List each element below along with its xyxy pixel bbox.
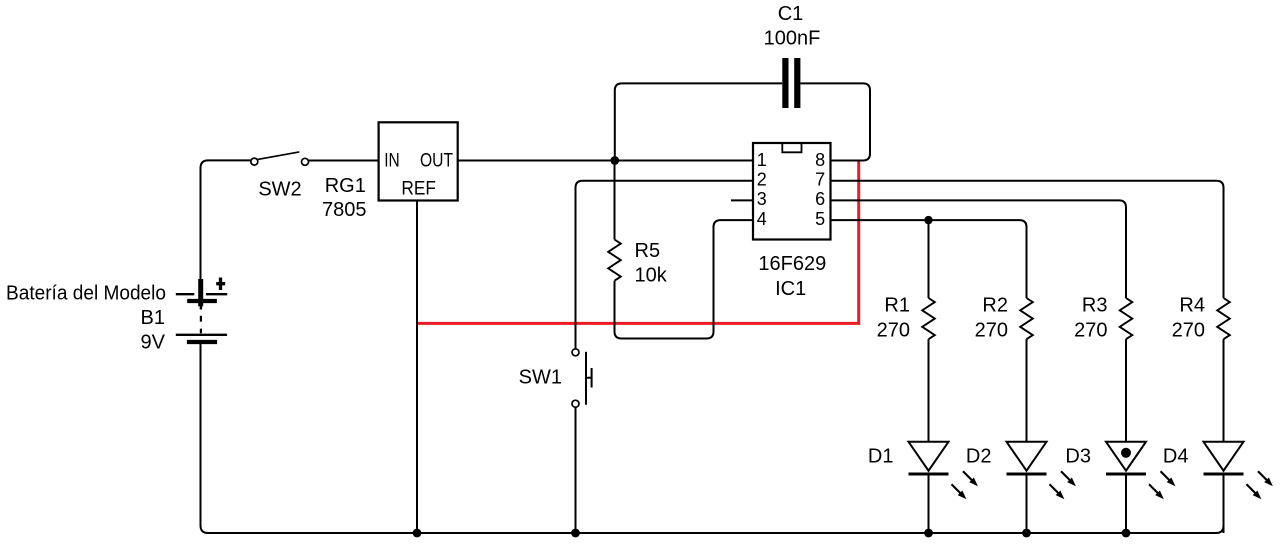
svg-text:IN: IN <box>384 150 400 171</box>
switch SW2 left contact <box>251 158 258 165</box>
junction D3 at bottom rail <box>1122 529 1131 538</box>
switch SW2 right contact <box>302 158 309 165</box>
svg-text:B1: B1 <box>141 307 165 329</box>
LED D4 cathode bar <box>1204 473 1244 476</box>
svg-text:7: 7 <box>815 170 825 190</box>
LED D1 triangle <box>909 442 949 471</box>
wire node A down to R5 <box>614 161 616 240</box>
wire D4 to bottom rail <box>1223 476 1225 534</box>
svg-text:R5: R5 <box>635 240 661 262</box>
svg-text:10k: 10k <box>635 264 668 286</box>
battery B1 bottom cell negative plate <box>187 340 217 344</box>
junction D1 at bottom rail <box>924 529 933 538</box>
LED D2 cathode bar <box>1007 473 1047 476</box>
wire D3 to bottom rail <box>1125 476 1127 534</box>
resistor R5 <box>608 240 621 281</box>
svg-text:5: 5 <box>815 209 825 229</box>
svg-text:9V: 9V <box>141 331 166 353</box>
LED D3 cathode bar <box>1106 473 1146 476</box>
op-amp IC1 16F629 body <box>753 143 831 240</box>
wire IC1 pin2 to SW1 <box>576 181 754 349</box>
wire C1 right plate to IC1 pin8 <box>801 83 871 160</box>
svg-text:REF: REF <box>401 178 436 199</box>
svg-text:Batería del Modelo: Batería del Modelo <box>6 282 166 304</box>
LED D2 emission arrows <box>1050 471 1079 501</box>
svg-text:100nF: 100nF <box>764 27 821 49</box>
wire SW1 to bottom rail <box>575 407 577 533</box>
capacitor C1 right plate <box>794 58 800 108</box>
LED D4 triangle <box>1204 442 1244 471</box>
svg-text:270: 270 <box>975 320 1008 342</box>
wire D2 to bottom rail <box>1026 476 1028 534</box>
battery B1 top cell negative plate <box>187 299 217 303</box>
wire RG1 REF to bottom rail <box>416 201 418 534</box>
svg-text:7805: 7805 <box>322 199 367 221</box>
svg-text:8: 8 <box>815 150 825 170</box>
svg-text:3: 3 <box>757 189 767 209</box>
wire IC1 pin3 stub <box>731 199 753 201</box>
svg-text:SW2: SW2 <box>258 178 301 200</box>
resistor R1 <box>922 298 935 339</box>
pushbutton SW1 button <box>586 368 592 388</box>
svg-text:OUT: OUT <box>420 150 453 171</box>
capacitor C1 left plate <box>782 58 788 108</box>
svg-text:16F629: 16F629 <box>758 253 826 275</box>
svg-text:R4: R4 <box>1179 295 1205 317</box>
wire R3 to D3 <box>1125 339 1127 442</box>
wire IC1 pin6 to R3 <box>831 200 1127 298</box>
wire red net REF-to-pin8 <box>417 161 859 324</box>
wire RG1 OUT to IC1 pin1 <box>458 160 753 162</box>
svg-text:4: 4 <box>757 209 767 229</box>
wire battery negative to bottom rail <box>201 344 209 533</box>
wire bottom rail <box>208 475 1224 534</box>
LED D3 emission arrows <box>1149 471 1178 501</box>
wire node A up to C1 left plate <box>615 83 782 160</box>
LED D1 emission arrows <box>952 471 981 501</box>
wire R1 to D1 <box>928 339 930 442</box>
svg-text:270: 270 <box>1074 320 1107 342</box>
wire IC1 pin7 to R4 <box>831 181 1224 298</box>
LED D2 triangle <box>1007 442 1047 471</box>
svg-text:RG1: RG1 <box>325 175 366 197</box>
svg-text:R3: R3 <box>1082 295 1108 317</box>
resistor R2 <box>1020 298 1033 339</box>
IC1 notch <box>782 144 801 152</box>
junction D2 at bottom rail <box>1022 529 1031 538</box>
junction SW1 at bottom rail <box>571 529 580 538</box>
wire R2 to D2 <box>1026 339 1028 442</box>
battery dashed link <box>200 316 202 333</box>
wire R4 to D4 <box>1223 339 1225 442</box>
svg-text:1: 1 <box>757 150 767 170</box>
wire node B down to R1 <box>928 220 930 298</box>
svg-text:270: 270 <box>1172 320 1205 342</box>
LED D3 dot <box>1121 448 1131 458</box>
svg-text:SW1: SW1 <box>519 367 562 389</box>
svg-text:6: 6 <box>815 189 825 209</box>
svg-text:D3: D3 <box>1065 445 1091 467</box>
wire battery positive to SW2 <box>201 160 251 280</box>
battery B1 top cell positive plate <box>176 293 227 295</box>
pushbutton SW1 top contact <box>572 349 579 356</box>
svg-text:D1: D1 <box>868 445 894 467</box>
battery B1 bottom cell positive plate <box>176 334 227 336</box>
svg-text:D4: D4 <box>1163 445 1189 467</box>
switch SW2 lever <box>258 152 300 160</box>
svg-text:C1: C1 <box>778 3 804 25</box>
resistor R4 <box>1217 298 1230 339</box>
battery B1 top cell thick stub <box>198 279 203 306</box>
svg-text:IC1: IC1 <box>775 278 806 300</box>
pushbutton SW1 bar <box>585 352 587 405</box>
regulator RG1 box <box>379 122 458 200</box>
node B junction at R1 tap <box>924 216 932 224</box>
svg-text:R2: R2 <box>982 295 1008 317</box>
wire SW2 to RG1 IN <box>309 160 379 162</box>
node A junction at C1/R5 tap <box>610 156 619 165</box>
wire D1 to bottom rail <box>928 476 930 534</box>
resistor R3 <box>1120 298 1133 339</box>
junction REF at bottom rail <box>413 529 422 538</box>
svg-text:R1: R1 <box>884 295 910 317</box>
svg-text:270: 270 <box>877 320 910 342</box>
pushbutton SW1 bottom contact <box>572 400 579 407</box>
LED D3 triangle <box>1106 442 1146 471</box>
LED D4 emission arrows <box>1247 471 1276 501</box>
LED D1 cathode bar <box>909 473 949 476</box>
svg-text:2: 2 <box>757 170 767 190</box>
battery plus sign <box>216 278 225 291</box>
svg-text:D2: D2 <box>966 445 992 467</box>
wire R5 bottom to IC1 pin4 <box>615 220 754 338</box>
wire IC1 pin5 to R2 <box>831 220 1027 298</box>
